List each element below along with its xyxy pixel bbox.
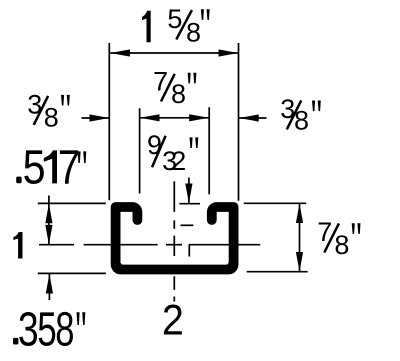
left extension line (top of channel) — [38, 202, 106, 204]
svg-text:9: 9 — [147, 130, 162, 160]
7/8 right dimension line — [299, 203, 301, 271]
svg-text:8: 8 — [55, 302, 74, 356]
3/8 right leader arrow — [239, 117, 267, 119]
label 2 (bottom) — [162, 296, 184, 344]
label 1 5/8" — [142, 4, 210, 48]
label 3/8" right — [280, 94, 321, 135]
svg-text:2: 2 — [162, 296, 184, 344]
dimension line 7/8 top — [140, 117, 209, 119]
svg-text:8: 8 — [44, 103, 59, 133]
svg-text:8: 8 — [171, 79, 186, 109]
left extension line (bottom of channel) — [38, 272, 106, 274]
svg-text:5: 5 — [167, 4, 182, 34]
right extension line (bottom of channel) — [247, 271, 308, 273]
inner fillet bottom-right — [226, 262, 229, 265]
label 3/8" left — [27, 90, 70, 133]
svg-text:5: 5 — [23, 141, 46, 195]
extension line right (1 5/8) — [238, 43, 240, 201]
svg-text:32: 32 — [162, 146, 186, 176]
label 7/8" top — [153, 67, 196, 109]
extension line left (1 5/8) — [108, 43, 110, 200]
.517 dimension double arrow — [48, 196, 50, 245]
svg-text:8: 8 — [294, 105, 309, 135]
svg-text:7: 7 — [58, 141, 80, 194]
horizontal centerline — [39, 244, 74, 246]
vertical centerline — [173, 181, 175, 212]
label 9/32" — [147, 130, 198, 176]
dimension line 1 5/8 top — [110, 52, 238, 54]
label 7/8" right — [317, 217, 360, 260]
svg-text:8: 8 — [186, 18, 201, 48]
svg-text:8: 8 — [334, 230, 349, 260]
.358 dimension arrow (up) — [48, 274, 50, 300]
right extension line (top of channel) — [244, 202, 307, 204]
lip bottom plane dash — [181, 224, 194, 226]
9/32 leader arrow (down) — [188, 178, 190, 204]
strut channel cross-section outline — [116, 207, 234, 270]
extension line right (7/8 top) — [208, 107, 210, 194]
3/8 left leader arrow — [82, 117, 110, 119]
svg-text:3: 3 — [18, 303, 39, 357]
svg-text:5: 5 — [37, 302, 56, 356]
label .517" — [16, 177, 21, 184]
label 1 (left) — [13, 232, 22, 259]
extension line left (7/8 top) — [139, 108, 141, 193]
inner fillet bottom-left — [120, 262, 123, 265]
slot top plane line — [179, 203, 200, 205]
small tick at start of right centerline — [188, 245, 190, 257]
label .358" — [13, 338, 18, 345]
